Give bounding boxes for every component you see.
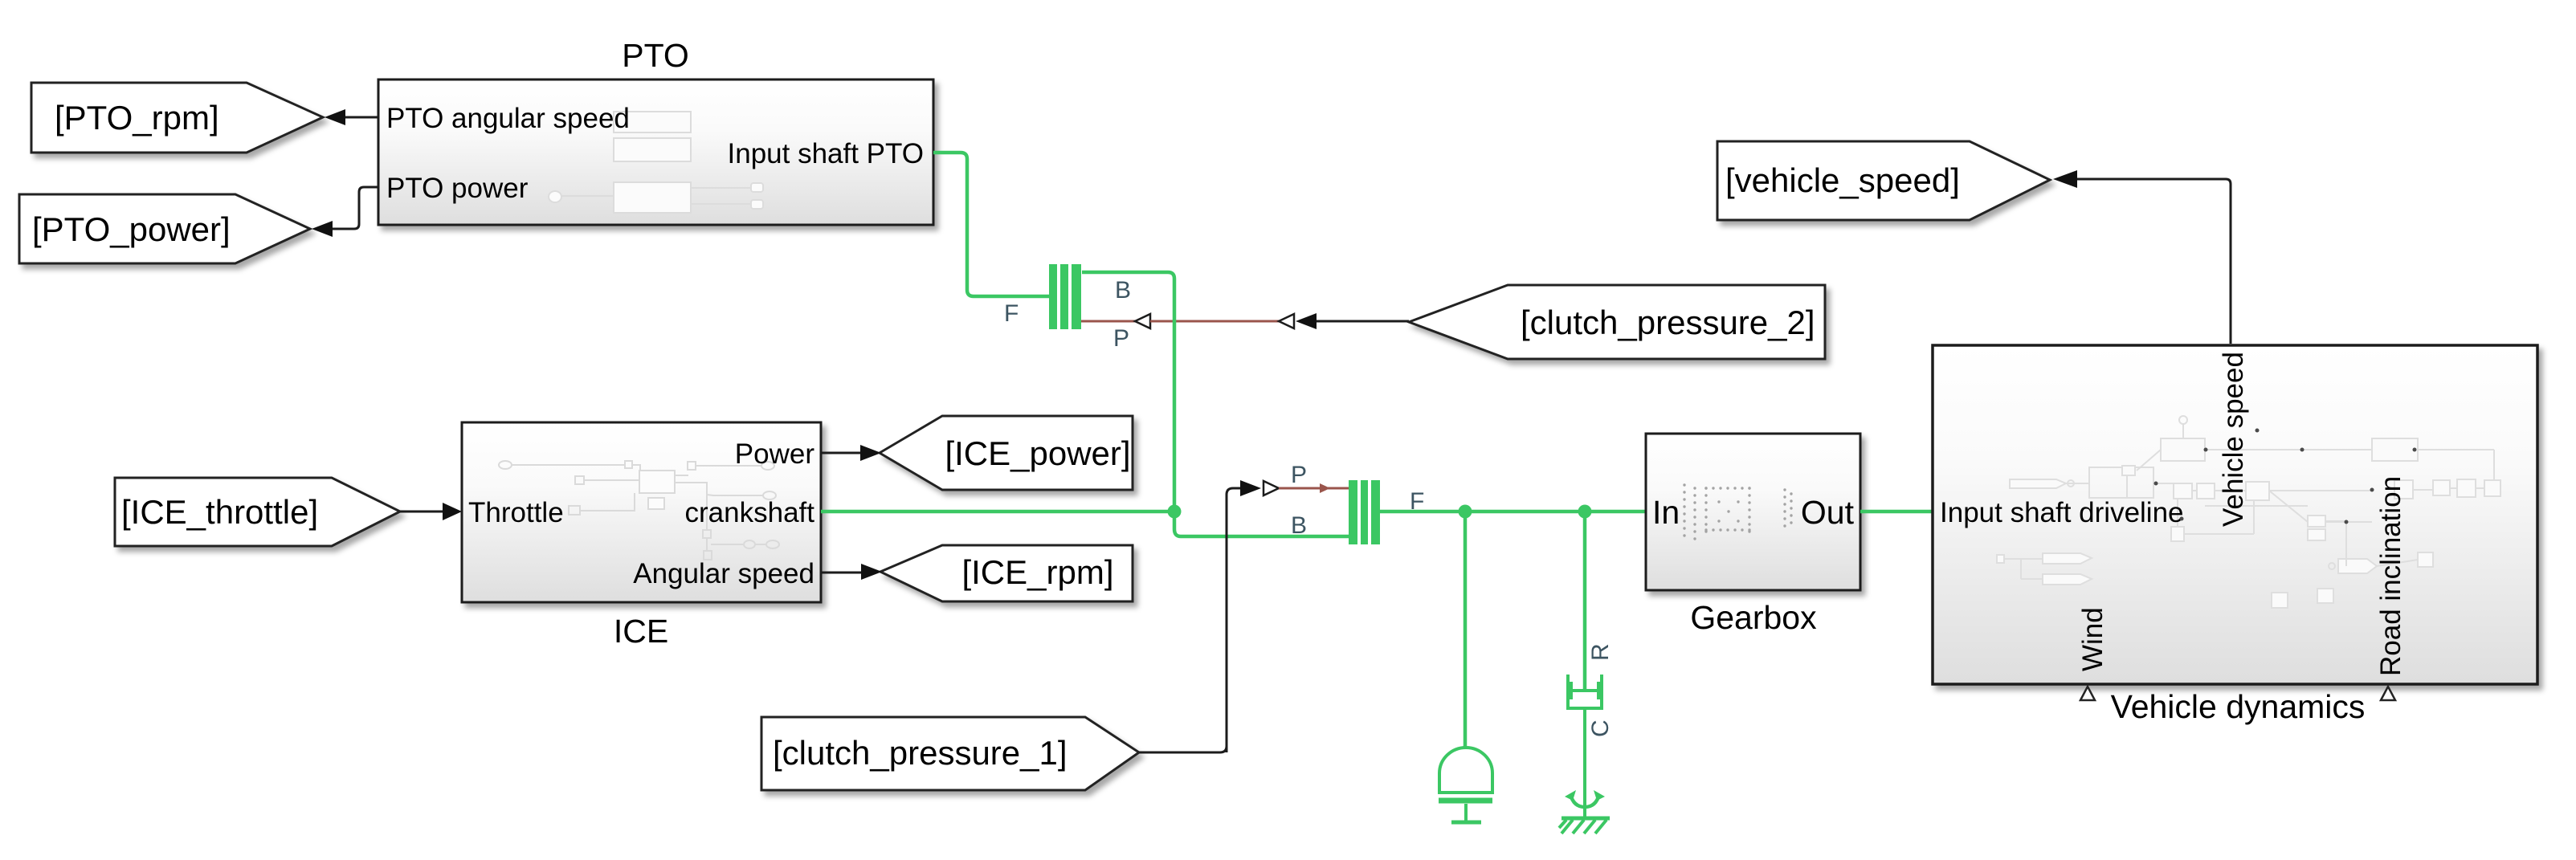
svg-text:Road inclination: Road inclination bbox=[2375, 476, 2407, 676]
wire clutch1 F to Gearbox In with junctions bbox=[1380, 510, 1646, 514]
svg-text:Out: Out bbox=[1801, 494, 1855, 531]
wire PTO power to PTO_power bbox=[312, 187, 378, 237]
rotational reference ground bbox=[1559, 790, 1610, 834]
ICE port labels bbox=[468, 438, 814, 589]
svg-text:Vehicle dynamics: Vehicle dynamics bbox=[2111, 688, 2366, 725]
Wind unconnected port triangle bbox=[2080, 687, 2095, 700]
svg-text:Throttle: Throttle bbox=[468, 497, 564, 528]
junction node J1 bbox=[1168, 505, 1182, 519]
subsystem PTO bbox=[378, 37, 933, 225]
svg-text:[vehicle_speed]: [vehicle_speed] bbox=[1725, 161, 1960, 199]
svg-text:PTO power: PTO power bbox=[386, 173, 529, 204]
wire ICE_throttle to ICE Throttle port bbox=[400, 503, 462, 520]
subsystem Vehicle dynamics bbox=[1933, 345, 2537, 725]
wire Gearbox Out to Vehicle dynamics bbox=[1860, 510, 1933, 514]
goto tag PTO_rpm bbox=[31, 83, 323, 153]
goto tag PTO_power bbox=[19, 194, 310, 263]
svg-text:[clutch_pressure_1]: [clutch_pressure_1] bbox=[773, 734, 1068, 772]
svg-text:Vehicle speed: Vehicle speed bbox=[2218, 352, 2249, 527]
clutch CL2 plates bbox=[1049, 264, 1081, 329]
wire PTO angular speed to PTO_rpm bbox=[325, 109, 378, 125]
clutch CL1 port labels bbox=[1291, 462, 1424, 539]
inertia block icon bbox=[1439, 748, 1492, 822]
wire Vehicle speed port to vehicle_speed tag bbox=[2053, 170, 2231, 344]
subsystem ICE bbox=[462, 422, 821, 650]
clutch CL2 P physical signal line bbox=[1081, 313, 1409, 329]
wire ICE Power to ICE_power bbox=[821, 445, 881, 461]
svg-text:B: B bbox=[1291, 512, 1307, 539]
svg-text:PTO angular speed: PTO angular speed bbox=[386, 103, 630, 134]
junction node J2 bbox=[1459, 505, 1472, 519]
svg-text:[ICE_throttle]: [ICE_throttle] bbox=[121, 493, 318, 531]
svg-text:[PTO_power]: [PTO_power] bbox=[32, 210, 231, 248]
wire clutch2 B port down to junction J1 bbox=[1082, 272, 1174, 512]
svg-text:Input shaft PTO: Input shaft PTO bbox=[728, 138, 925, 169]
ICE faint interior preview bbox=[499, 461, 779, 560]
PTO port labels bbox=[386, 103, 924, 204]
wire junction J2 down to inertia bbox=[1464, 512, 1468, 748]
svg-text:In: In bbox=[1652, 494, 1680, 531]
svg-text:Input shaft driveline: Input shaft driveline bbox=[1940, 497, 2184, 528]
svg-text:PTO: PTO bbox=[622, 37, 689, 74]
rotational damper icon bbox=[1568, 675, 1602, 817]
Gearbox dotted interior preview bbox=[1683, 483, 1792, 540]
svg-text:R: R bbox=[1587, 643, 1614, 661]
from tag clutch_pressure_2 bbox=[1409, 285, 1825, 359]
svg-text:ICE: ICE bbox=[614, 613, 668, 650]
svg-text:C: C bbox=[1587, 719, 1614, 737]
from tag ICE_throttle bbox=[115, 478, 400, 546]
svg-text:F: F bbox=[1004, 300, 1019, 327]
wire junction J1 to clutch1 B port bbox=[1174, 512, 1349, 536]
goto tag vehicle_speed bbox=[1717, 141, 2050, 220]
wire junction J3 down to damper R port bbox=[1583, 512, 1587, 691]
wire PTO output to clutch2 F port bbox=[933, 153, 1050, 296]
wire clutch_pressure_1 tag to riser bbox=[1139, 746, 1227, 752]
svg-text:B: B bbox=[1115, 277, 1131, 304]
svg-text:[ICE_power]: [ICE_power] bbox=[945, 434, 1130, 472]
goto tag ICE_rpm bbox=[880, 545, 1133, 601]
svg-text:P: P bbox=[1291, 462, 1307, 488]
svg-text:[PTO_rpm]: [PTO_rpm] bbox=[55, 99, 219, 137]
svg-text:[ICE_rpm]: [ICE_rpm] bbox=[961, 553, 1113, 591]
PTO faint interior preview bbox=[549, 112, 763, 213]
junction node J3 bbox=[1578, 505, 1592, 519]
clutch CL1 plates bbox=[1349, 480, 1380, 544]
goto tag ICE_power bbox=[880, 416, 1133, 490]
svg-text:[clutch_pressure_2]: [clutch_pressure_2] bbox=[1521, 304, 1815, 341]
Vehicle dynamics faint interior preview bbox=[1997, 416, 2500, 608]
Vehicle dynamics port labels bbox=[1940, 352, 2407, 676]
clutch CL2 port labels bbox=[1004, 277, 1131, 352]
from tag clutch_pressure_1 bbox=[761, 717, 1139, 790]
svg-text:crankshaft: crankshaft bbox=[685, 497, 815, 528]
svg-text:P: P bbox=[1113, 325, 1129, 352]
svg-text:Angular speed: Angular speed bbox=[633, 558, 814, 589]
wire clutch_pressure_1 to clutch1 P port bbox=[1227, 480, 1349, 752]
svg-text:Gearbox: Gearbox bbox=[1690, 599, 1817, 636]
Vehicle dynamics preview junction dots bbox=[2154, 429, 2417, 524]
svg-text:Power: Power bbox=[735, 438, 815, 470]
wire ICE Angular speed to ICE_rpm bbox=[821, 564, 882, 580]
subsystem Gearbox bbox=[1646, 434, 1860, 636]
wire crankshaft green from ICE to junction J1 bbox=[821, 510, 1171, 514]
svg-text:Wind: Wind bbox=[2077, 607, 2109, 671]
Road inclination unconnected port triangle bbox=[2381, 687, 2395, 700]
